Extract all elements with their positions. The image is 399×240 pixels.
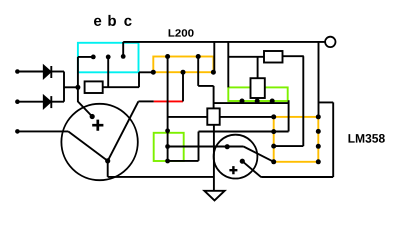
wire bbox=[168, 116, 274, 118]
wire bbox=[17, 101, 44, 103]
resistor R4 bbox=[207, 108, 219, 124]
pin b bbox=[106, 55, 111, 60]
terminal node bbox=[15, 129, 20, 134]
node J3 top bbox=[165, 128, 170, 133]
wire bbox=[122, 42, 124, 57]
pin e bbox=[91, 55, 96, 60]
pin L200-2 bbox=[196, 54, 201, 59]
label LM358 bbox=[349, 134, 385, 143]
wire (ground stem) bbox=[213, 125, 215, 191]
terminal node bbox=[15, 99, 20, 104]
node Q2 emitter bbox=[240, 159, 245, 164]
transistor Q1 (TO-3 case) bbox=[61, 104, 137, 180]
label L200 bbox=[169, 29, 194, 37]
wire (Q1 collector diag) bbox=[108, 101, 139, 160]
wire bbox=[103, 72, 154, 87]
wire bbox=[257, 57, 259, 78]
wire bbox=[167, 57, 169, 131]
pin c bbox=[121, 54, 126, 59]
wire bbox=[319, 102, 334, 177]
wire bbox=[213, 42, 215, 72]
label e bbox=[94, 18, 101, 26]
wire bbox=[138, 100, 153, 102]
wire bbox=[227, 42, 229, 88]
wire (Q1 base entry) bbox=[78, 87, 92, 116]
wire bbox=[63, 72, 65, 102]
wire bbox=[17, 130, 68, 132]
pin U2-6 bbox=[316, 144, 321, 149]
pin J2-2 bbox=[255, 99, 260, 104]
pin U2-4 bbox=[271, 159, 276, 164]
label b bbox=[108, 15, 116, 26]
wire bbox=[107, 57, 109, 87]
pin L200-3 bbox=[151, 70, 156, 75]
plus mark Q2 bbox=[229, 166, 237, 174]
wire bbox=[108, 161, 214, 177]
wire bbox=[274, 56, 304, 146]
plus mark Q1 bbox=[92, 120, 103, 131]
wire bbox=[51, 101, 64, 103]
wire bbox=[214, 102, 289, 104]
wire bbox=[318, 42, 320, 117]
op-amp U2 LM358 (orange highlight box) bbox=[274, 117, 319, 162]
pin J2-3 bbox=[270, 99, 275, 104]
pin U2-7 bbox=[316, 129, 321, 134]
wire bbox=[64, 86, 78, 88]
wire bbox=[168, 100, 289, 161]
wire (Q1 emitter diag) bbox=[68, 131, 108, 161]
transistor Q2 (TO-3 case) bbox=[214, 135, 258, 179]
node Q2 base bbox=[225, 144, 230, 149]
wire bbox=[182, 72, 184, 101]
pin J2-1 bbox=[240, 99, 245, 104]
wire (red net from Q1 collector to L200 pin) bbox=[154, 100, 183, 102]
pin U2-3 bbox=[271, 144, 276, 149]
pin U2-5 bbox=[316, 159, 321, 164]
resistor R3 bbox=[264, 51, 283, 63]
pin L200-4 bbox=[181, 70, 186, 75]
pin U2-2 bbox=[271, 129, 276, 134]
pin L200-1 bbox=[165, 54, 170, 59]
terminal (output) bbox=[325, 37, 335, 47]
wire bbox=[17, 71, 44, 73]
diode D2 bbox=[44, 96, 52, 108]
wire bbox=[257, 98, 259, 101]
wire (top rail) bbox=[123, 41, 325, 43]
ground bbox=[204, 191, 224, 201]
label c bbox=[124, 18, 131, 26]
wire bbox=[228, 56, 264, 58]
wire bbox=[244, 147, 274, 162]
terminal node bbox=[15, 69, 20, 74]
wire bbox=[198, 57, 213, 109]
pin U2-1 bbox=[271, 114, 276, 119]
node Q1 base bbox=[90, 114, 95, 119]
wire bbox=[168, 146, 244, 148]
TO-3 socket U3 (cyan highlight box) bbox=[78, 43, 139, 73]
wire bbox=[242, 161, 333, 177]
wire bbox=[78, 57, 93, 87]
connector J3 (green highlight box) bbox=[154, 133, 184, 161]
pin L200-5 bbox=[211, 70, 216, 75]
diode D1 bbox=[44, 66, 52, 78]
pin J3-2 bbox=[165, 159, 170, 164]
node (bridge junction) bbox=[75, 85, 80, 90]
connector J2 (green highlight box) bbox=[228, 87, 287, 101]
node Q1 emitter bbox=[105, 158, 110, 163]
regulator U1 L200 (orange highlight box) bbox=[153, 57, 213, 73]
pin U2-8 bbox=[316, 114, 321, 119]
wire bbox=[283, 55, 304, 57]
resistor R2 bbox=[251, 78, 265, 98]
wire bbox=[51, 71, 64, 73]
resistor R1 bbox=[85, 81, 103, 93]
pin J3-1 bbox=[165, 144, 170, 149]
wire bbox=[167, 131, 169, 161]
